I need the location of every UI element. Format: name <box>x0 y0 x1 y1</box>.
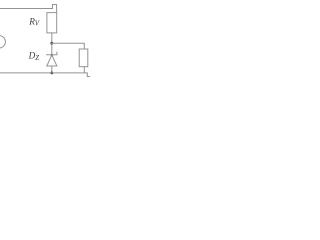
diode DZ apex junction blob <box>51 54 53 56</box>
load resistor (right) <box>79 49 88 67</box>
node A (junction dot) <box>50 42 53 45</box>
node B (junction dot) <box>50 72 53 75</box>
resistor RV <box>47 13 57 33</box>
wire bottom (with jog, exits right) <box>0 73 90 77</box>
svg-text:RV: RV <box>28 16 40 27</box>
wire load to bottom <box>83 67 85 73</box>
diode DZ triangle <box>47 55 57 66</box>
wire node A to load <box>52 43 85 49</box>
source (clipped circle at left edge) <box>0 36 5 48</box>
wire resistor to node A <box>51 33 53 43</box>
wire diode to node B <box>51 66 53 73</box>
svg-text:DZ: DZ <box>28 51 40 62</box>
wire top (from source, with jog into resistor) <box>0 5 57 13</box>
wire node A to diode <box>51 43 53 55</box>
diode DZ cathode bar with zener tick <box>47 52 57 55</box>
